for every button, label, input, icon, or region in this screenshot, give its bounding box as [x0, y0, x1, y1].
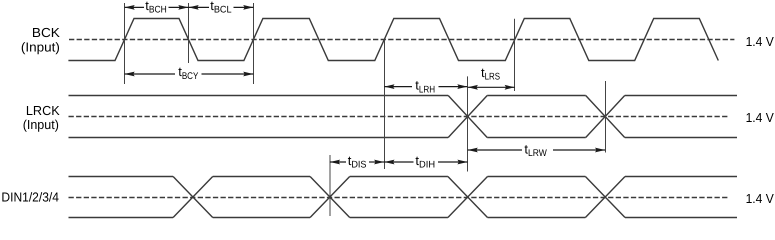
dimension tBCL arrow right — [234, 6, 254, 8]
marker LRCK crossover 2 boundary — [605, 81, 607, 153]
svg-text:LRCK: LRCK — [26, 103, 60, 118]
wire LRCK crossover 2 — [586, 96, 625, 138]
dimension tLRW arrow right — [553, 149, 605, 151]
wire BCK 1.4V threshold dashed line — [69, 39, 734, 41]
marker tBCH left edge — [124, 3, 126, 84]
wire LRCK high rail — [69, 95, 738, 97]
svg-text:1.4 V: 1.4 V — [746, 110, 775, 125]
svg-text:DIN1/2/3/4: DIN1/2/3/4 — [1, 189, 59, 204]
wire LRCK low rail — [69, 137, 738, 139]
wire DIN crossover 4 — [585, 177, 625, 218]
wire DIN high rail — [69, 176, 738, 178]
dimension tLRH arrow left — [384, 86, 412, 88]
marker LRCK crossover 1 boundary — [467, 76, 469, 171]
svg-text:1.4 V: 1.4 V — [746, 34, 775, 49]
marker DIN crossover tDIS boundary — [329, 155, 331, 216]
svg-text:(Input): (Input) — [23, 117, 59, 132]
wire DIN crossover 2 — [310, 177, 350, 218]
wire LRCK 1.4V threshold dashed line — [69, 116, 729, 118]
svg-text:1.4 V: 1.4 V — [746, 191, 775, 206]
marker tBCH/tBCL middle edge — [188, 3, 190, 63]
dimension tBCH arrow left — [125, 6, 145, 8]
dimension tBCH arrow right — [169, 6, 189, 8]
marker BCK rising edge tLRS boundary — [514, 19, 516, 91]
dimension tLRH arrow right — [439, 86, 468, 88]
svg-text:(Input): (Input) — [21, 39, 60, 54]
dimension tBCY arrow left — [125, 73, 176, 75]
dimension tDIH arrow right — [438, 161, 468, 163]
dimension tBCY arrow right — [202, 73, 254, 75]
wire DIN low rail — [69, 217, 738, 219]
wire DIN 1.4V threshold dashed line — [69, 197, 730, 199]
svg-text:BCK: BCK — [32, 25, 60, 40]
dimension tDIS arrow left — [330, 161, 346, 163]
marker BCK rising edge tLRH/tDIS boundary — [384, 40, 386, 169]
dimension tLRW arrow left — [468, 149, 522, 151]
marker tBCL right edge — [253, 3, 255, 84]
wire LRCK crossover 1 — [448, 96, 487, 138]
dimension tLRS arrow — [468, 86, 515, 88]
dimension tBCL arrow left — [189, 6, 210, 8]
dimension tDIS arrow right — [369, 161, 384, 163]
wire DIN crossover 3 — [448, 177, 488, 218]
wire BCK clock waveform — [68, 19, 718, 61]
dimension tDIH arrow left — [384, 161, 413, 163]
wire DIN crossover 1 — [173, 177, 213, 218]
